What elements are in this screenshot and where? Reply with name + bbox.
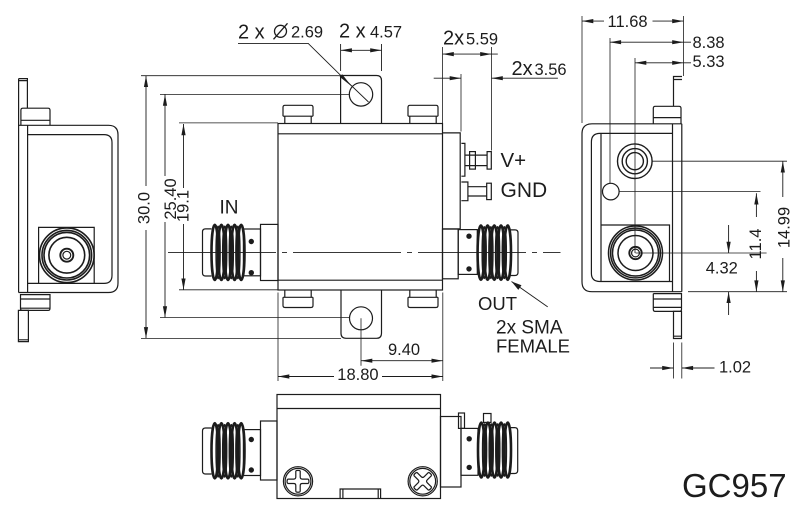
ext 5.33 sma center (634, 58, 636, 253)
svg-text:11.4: 11.4 (747, 229, 765, 260)
arrows 5.33 (635, 61, 646, 65)
left view plate interface line (27, 125, 29, 292)
arrow 30.0 bottom (144, 327, 148, 338)
ext 11.68/8.38/5.33 right (683, 16, 685, 76)
front right panel (443, 133, 461, 229)
svg-text:2 x: 2 x (339, 21, 366, 43)
front bottom tab hole (350, 307, 373, 330)
right view small hole (603, 183, 620, 200)
ext line 19.1 bottom (179, 289, 278, 291)
dim line 25.40 (164, 94, 166, 317)
left view bottom screw head (side) (21, 295, 51, 311)
right view interface verticals (673, 124, 682, 292)
IN connector plate screw dots (249, 239, 253, 243)
arrow leader 2.69 (340, 74, 352, 86)
left view SMA flange square (39, 227, 95, 283)
arrows 11.4 (754, 193, 758, 204)
bottom view left connector plate (243, 430, 260, 476)
arrow 25.40 bottom (163, 306, 167, 317)
ext line 25.40 top (160, 93, 350, 95)
dim line 3.56 (434, 77, 558, 79)
dim line 4.32 (728, 225, 730, 315)
ext 9.40 circle center (360, 318, 362, 365)
bottom view lid line (277, 408, 441, 410)
dim line 9.40 (361, 360, 443, 362)
dim line 1.02 (650, 367, 715, 369)
right view body inner line (591, 133, 672, 281)
bottom view right connector threads (478, 423, 511, 478)
front top screw right (408, 105, 438, 123)
OUT connector nut cap (511, 230, 519, 276)
svg-text:1.02: 1.02 (719, 359, 751, 377)
dim line 5.33 (635, 62, 691, 64)
arrow 19.1 top (181, 124, 185, 135)
svg-text:GND: GND (501, 179, 548, 202)
ext line 30.0 bottom (141, 337, 341, 339)
arrows 18.80 (278, 374, 289, 378)
front bottom screw left (283, 290, 313, 308)
dim line 18.80 (278, 376, 443, 378)
front body lid lines (278, 133, 443, 135)
svg-text:2x: 2x (512, 58, 533, 80)
svg-text:8.38: 8.38 (693, 34, 725, 52)
ext 5.59/3.56 pin tip (491, 47, 493, 151)
front bottom screw right (408, 290, 438, 308)
svg-text:2 x: 2 x (238, 22, 265, 44)
right view panel line (600, 133, 602, 281)
dim line 11.4 (755, 193, 757, 292)
left view body inner line (28, 135, 112, 284)
left view flange plate edge (vertical) (18, 79, 20, 293)
ext 8.38 small hole (609, 38, 611, 183)
arrow 25.40 top (163, 94, 167, 105)
front top tab hole (349, 83, 372, 106)
right view flange plate top tab (674, 77, 683, 107)
left view bottom flange tab (18, 310, 28, 341)
right view body outline (582, 124, 673, 292)
svg-text:4.32: 4.32 (706, 260, 738, 278)
bottom view right connector block (441, 417, 462, 488)
OUT connector flange block (443, 229, 459, 279)
svg-text:2x: 2x (443, 28, 464, 50)
dim line 8.38 (610, 41, 691, 43)
front bottom mounting tab (341, 290, 382, 338)
bottom view left connector threads (212, 423, 245, 478)
arrows 4.57 (341, 48, 352, 52)
bottom view left connector nut cap (203, 428, 212, 474)
arrows 1.02 (outside) (662, 366, 673, 370)
leader OUT (512, 282, 548, 307)
right view bottom screw head (653, 294, 681, 312)
IN connector threads (212, 225, 245, 280)
OUT connector plate screw dots (467, 234, 471, 238)
right view top screw head (653, 106, 681, 124)
dim line 14.99 (782, 161, 784, 292)
ext small hole (11.4) (620, 191, 761, 193)
ext line 19.1 top (179, 122, 278, 124)
arrow 19.1 bottom (181, 279, 185, 290)
svg-text:11.68: 11.68 (608, 13, 648, 31)
svg-text:18.80: 18.80 (337, 366, 378, 384)
GND feedthrough pin (461, 182, 486, 201)
svg-text:5.59: 5.59 (466, 31, 498, 49)
OUT connector mount plate (458, 230, 477, 275)
leader 2.69 (238, 43, 369, 102)
bottom view right connector nut cap (510, 428, 517, 474)
ext 18.80 left (277, 293, 279, 382)
arrows 9.40 (361, 359, 372, 363)
arrow 30.0 top (144, 76, 148, 87)
arrows 5.59 (443, 52, 454, 56)
bottom view phillips screw right (408, 467, 437, 496)
svg-text:30.0: 30.0 (136, 192, 154, 224)
arrows 3.56 (outside) (450, 76, 461, 80)
left view flange plate top tab (19, 79, 28, 109)
svg-text:OUT: OUT (478, 293, 517, 314)
svg-text:9.40: 9.40 (388, 341, 420, 359)
ext sma center (4.32) (636, 252, 767, 254)
svg-text:FEMALE: FEMALE (496, 336, 570, 357)
dim line 5.59 (443, 53, 498, 55)
ext 18.80/9.40 right (442, 293, 444, 382)
arrow leader OUT (512, 282, 522, 290)
arrows 8.38 (610, 40, 621, 44)
left view body outline (19, 125, 118, 292)
ext lines 4.57 (341, 44, 382, 71)
bottom view right pins tabs (459, 413, 465, 428)
centerline (168, 251, 561, 253)
right view SMA connector circles (609, 226, 663, 280)
IN connector mount plate (243, 229, 260, 276)
svg-text:3.56: 3.56 (535, 61, 567, 79)
dim line 30.0 (145, 76, 147, 339)
bottom view body (277, 395, 441, 499)
right view bottom flange tab (674, 311, 682, 338)
ext line 30.0 top (141, 75, 341, 77)
left view SMA connector circles (40, 228, 95, 283)
V+ feedthrough pin (461, 143, 487, 176)
dim line 11.68 (582, 20, 684, 22)
svg-text:5.33: 5.33 (693, 53, 725, 71)
front body outline (278, 124, 443, 291)
bottom view right connector plate (461, 428, 478, 475)
svg-text:4.57: 4.57 (370, 24, 402, 42)
arrows 4.32 (outside) (727, 242, 731, 253)
svg-text:19.1: 19.1 (175, 190, 193, 222)
bottom view edge notch (340, 489, 381, 499)
arrows 11.68 (582, 19, 593, 23)
ext body bottom right (688, 291, 787, 293)
ext feedthrough center (14.99) (653, 160, 788, 162)
diameter symbol (274, 23, 288, 39)
dim line 19.1 (183, 124, 185, 290)
ext line 25.40 bottom (160, 317, 350, 319)
svg-text:2.69: 2.69 (291, 24, 323, 42)
IN connector flange block (261, 224, 279, 280)
dim line 4.57 (341, 49, 382, 51)
bottom view left connector block (261, 421, 278, 480)
front top screw left (283, 105, 313, 123)
svg-text:V+: V+ (501, 149, 527, 172)
ext 3.56 panel (460, 74, 462, 132)
svg-text:14.99: 14.99 (776, 207, 794, 248)
svg-text:GC957: GC957 (682, 467, 787, 504)
svg-text:IN: IN (220, 198, 239, 219)
arrows 14.99 (781, 161, 785, 172)
left view top screw head (side) (21, 108, 50, 125)
IN connector nut cap (203, 229, 212, 276)
ext 1.02 pins (674, 343, 682, 379)
front top mounting tab (341, 76, 382, 124)
right view feedthrough circles (618, 144, 653, 179)
right view SMA flange square (601, 225, 670, 282)
ext 11.68 left (581, 16, 583, 123)
bottom view phillips screw left (283, 467, 312, 496)
ext body right top (5.59) (442, 47, 444, 124)
OUT connector threads (478, 225, 511, 279)
